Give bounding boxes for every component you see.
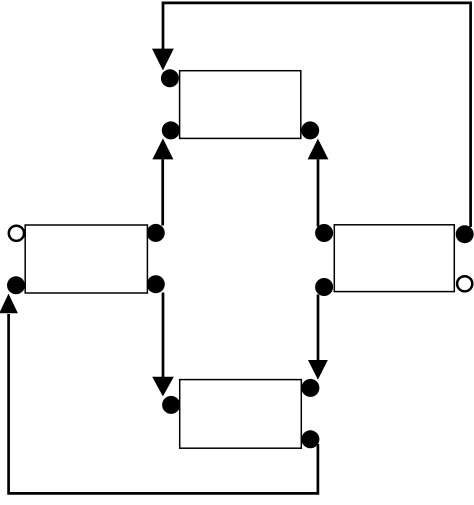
port P7 (filled, left box right-bottom) [147, 275, 165, 293]
port P1 (filled, top box left-top) [161, 69, 179, 87]
arrowhead A4 (down, into port P12) [152, 377, 174, 397]
port P12 (filled, bottom box left) [162, 396, 180, 414]
wire W2 (left box top-right port up to top box bottom-left) [161, 159, 164, 225]
port P8 (filled, right box left-top) [315, 224, 333, 242]
arrowhead A3 (up, into port P3) [308, 139, 329, 160]
port P14 (filled, bottom box right-bottom) [301, 430, 319, 448]
wire W4 (left box bottom-right port down to bottom box left) [162, 293, 165, 378]
box B3 (right) [334, 225, 454, 292]
wire W3 (right box top-left port up to top box bottom-right) [317, 159, 320, 226]
port P13 (filled, bottom box right-top) [301, 379, 319, 397]
box B2 (left) [25, 225, 147, 293]
wire W5 (right box bottom-left port down to bottom box top-right) [317, 295, 320, 361]
arrowhead A5 (down, into port P13) [308, 360, 328, 380]
arrowhead A6 (up, into port P5) [0, 294, 18, 314]
port P6 (filled, left box right-top) [147, 224, 165, 242]
port P9 (filled, right box left-bottom) [315, 278, 333, 296]
box B4 (bottom) [180, 380, 302, 449]
wire W6 (bottom box bottom-right port down, along bottom, up to left box) [9, 314, 318, 493]
box B1 (top) [180, 71, 301, 139]
arrowhead A1 (down, into port P1) [152, 49, 174, 71]
wire W1 (right box top port up, across top, down to top box) [163, 3, 471, 227]
port P3 (filled, top box right-bottom) [301, 121, 319, 139]
port P2 (filled, top box left-bottom) [162, 121, 180, 139]
port P5 (filled, left box left-bottom) [7, 276, 25, 294]
port P11 (open, right box right-bottom) [457, 276, 472, 291]
port P4 (open, left box left-top) [9, 226, 24, 241]
port P10 (filled, right box right-top) [456, 225, 474, 243]
arrowhead A2 (up, into port P2) [152, 138, 173, 159]
